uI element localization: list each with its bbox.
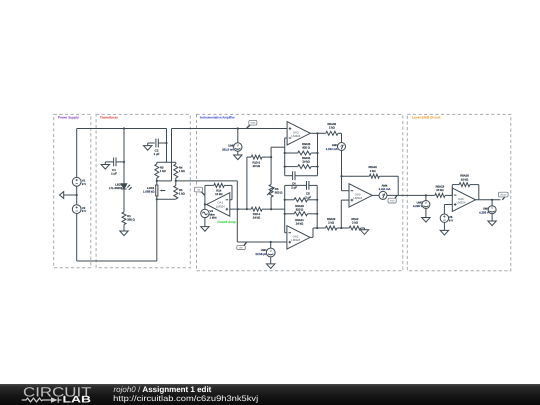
node B divider: [340, 227, 342, 229]
svg-text:Transducer: Transducer: [100, 116, 119, 120]
voltmeter UM5: [222, 129, 242, 152]
wire pot node to OA2 minus leg: [271, 208, 285, 210]
wire mid-left node to riser: [157, 129, 172, 181]
wire vin+ net to instrumentation amp: [172, 128, 288, 130]
resistor R0A23: [326, 217, 350, 230]
wire bridge top rail: [157, 162, 176, 164]
section box Transducer: [96, 114, 190, 267]
resistor R0A25: [284, 142, 319, 155]
svg-text:Vout: Vout: [390, 200, 395, 203]
capacitor C1: [105, 158, 124, 176]
op-amp OA6: [452, 188, 475, 211]
wire LED cathode to R1: [123, 189, 125, 212]
svg-text:LM324: LM324: [216, 204, 225, 208]
wire OA6 non-inverting to V6: [444, 205, 452, 215]
wire LED anode: [123, 129, 125, 184]
node UM5 tap: [237, 127, 239, 129]
resistor R10-1: [251, 207, 271, 219]
capacitor C4: [285, 171, 318, 189]
resistor R10-2: [247, 155, 271, 168]
wire AM4 to level shift: [387, 194, 426, 196]
wire OA3 inverting input: [285, 138, 287, 176]
op-amp OA2: [287, 226, 310, 249]
svg-text:1 μF: 1 μF: [154, 152, 160, 156]
label Guard Amp: [217, 220, 235, 224]
wire OA6 output: [476, 199, 501, 201]
wire node B to OA0 plus: [341, 200, 349, 228]
svg-text:Instrumentation Amplifier: Instrumentation Amplifier: [200, 116, 236, 120]
svg-text:1 kHz: 1 kHz: [210, 216, 218, 220]
svg-text:Guard Amp: Guard Amp: [217, 220, 235, 224]
svg-text:24 kΩ: 24 kΩ: [296, 222, 303, 226]
op-amp OA3: [287, 122, 310, 145]
guard amp op-amp OA1 (mirrored): [207, 193, 230, 217]
svg-text:10 kΩ: 10 kΩ: [436, 188, 443, 192]
svg-text:24 kΩ: 24 kΩ: [253, 216, 260, 220]
svg-text:LM324: LM324: [291, 134, 300, 138]
ammeter AM4: [379, 183, 391, 199]
svg-text:20 kΩ: 20 kΩ: [253, 164, 260, 168]
node UM8 tap: [491, 199, 493, 201]
flag node Vin-: [237, 242, 247, 250]
svg-text:9 V: 9 V: [82, 182, 86, 186]
svg-text:330 Ω: 330 Ω: [127, 218, 135, 222]
svg-text:Power Supply: Power Supply: [58, 116, 79, 120]
voltage source V1: [72, 177, 86, 186]
resistor R0A26: [284, 198, 319, 212]
node feedback tap: [340, 175, 342, 177]
ammeter AM1: [326, 133, 346, 151]
wire OA2 inverting leg: [285, 185, 287, 232]
resistor R0A31: [284, 156, 319, 169]
svg-text:vadd: vadd: [250, 122, 256, 125]
flag node vadd: [246, 120, 257, 128]
svg-text:http://circuitlab.com/c6zu9h3n: http://circuitlab.com/c6zu9h3nk5kvj: [113, 394, 258, 403]
ground below UM5: [234, 151, 242, 159]
node C2 to bridge supply wire: [165, 142, 167, 144]
svg-text:LTL-30233: LTL-30233: [109, 186, 123, 190]
resistor R4: [174, 164, 185, 178]
section box Level Shift Circuit: [407, 114, 511, 270]
wire OA3 output: [310, 132, 326, 176]
capacitor C5: [285, 181, 318, 199]
ground for C1: [101, 162, 109, 169]
flag node vss: [194, 187, 204, 195]
voltage source V6: [440, 214, 453, 222]
svg-text:Level Shift Circuit: Level Shift Circuit: [412, 116, 441, 120]
ground after R0A2: [360, 228, 368, 234]
logo LAB: [63, 394, 92, 405]
ground for C2: [144, 143, 152, 150]
resistor R0A4 feedback: [342, 165, 399, 178]
svg-text:22.58 μV: 22.58 μV: [255, 252, 266, 256]
node LED tap on V+ rail: [123, 127, 125, 129]
svg-text:2.411 mA: 2.411 mA: [379, 187, 391, 191]
svg-text:4.299 V: 4.299 V: [479, 210, 489, 214]
svg-text:4.299 V: 4.299 V: [413, 204, 423, 208]
resistor R5 bridge: [174, 178, 185, 199]
wire R10-2 left leg down to guard wire: [246, 157, 248, 209]
resistor R14 feedback: [205, 183, 232, 199]
flag node Vout: [388, 195, 397, 203]
wire OA3 minus to gain network: [271, 147, 285, 157]
voltmeter UM3: [413, 195, 430, 208]
resistor R0A02: [326, 122, 342, 136]
node pot bottom: [270, 208, 272, 210]
wire AM1 to OA0 inverting node: [342, 151, 350, 191]
wire OA2 output jog: [310, 227, 325, 238]
svg-text:2 kΩ: 2 kΩ: [370, 169, 376, 173]
potentiometer R5 gain: [267, 157, 282, 209]
logo CIRCUIT: [23, 384, 92, 399]
node C1 to LED wire: [123, 161, 125, 163]
wire V- rail from supply to bridge bottom: [77, 199, 157, 261]
section box Instrumentation Amplifier: [197, 114, 403, 270]
resistor R0A23 input: [426, 185, 452, 198]
footer title text: [114, 385, 212, 394]
node UM3 tap: [425, 194, 427, 196]
footer url text: [113, 394, 258, 403]
ground below UM1: [267, 257, 275, 269]
wire OA1 output node: [204, 185, 207, 209]
voltmeter UM1: [255, 242, 275, 257]
ground below V4: [201, 218, 209, 232]
capacitor C2: [148, 139, 167, 157]
ground below UM8: [488, 214, 496, 226]
svg-text:LM324: LM324: [457, 201, 466, 205]
svg-text:12 kΩ: 12 kΩ: [215, 192, 222, 196]
node bridge mid-right: [175, 180, 177, 182]
flag node Vfinale: [498, 192, 508, 200]
voltmeter UM8: [479, 200, 496, 215]
svg-text:1 kΩ: 1 kΩ: [160, 169, 166, 173]
ground below V6: [440, 222, 448, 235]
svg-text:9 V: 9 V: [82, 209, 86, 213]
ground below UM3: [422, 209, 430, 223]
section box Power Supply: [54, 114, 91, 267]
resistor R1: [122, 212, 135, 225]
svg-text:rojoh0 / Assignment 1 edit: rojoh0 / Assignment 1 edit: [114, 385, 212, 394]
svg-text:291.9 mV: 291.9 mV: [222, 147, 234, 151]
wire OA2 non-inverting input: [237, 241, 287, 243]
svg-text:2 kΩ: 2 kΩ: [352, 221, 358, 225]
svg-text:820 Ω: 820 Ω: [302, 146, 310, 150]
svg-text:1.068 kΩ: 1.068 kΩ: [143, 189, 154, 193]
LED LED1: [109, 183, 132, 191]
svg-text:2 kΩ: 2 kΩ: [329, 125, 335, 129]
svg-text:1 kΩ: 1 kΩ: [179, 169, 185, 173]
wire guard bus: [230, 208, 251, 210]
node UM1 tap: [270, 241, 272, 243]
logo resistor zigzag and diode: [22, 397, 62, 403]
wire bridge supply drop: [166, 129, 168, 163]
svg-text:2 μF: 2 μF: [291, 185, 297, 189]
wire bridge bottom rail: [156, 198, 176, 200]
resistor R0A21: [284, 212, 319, 226]
ground below R1: [120, 225, 128, 236]
wire feedback down to output: [397, 176, 399, 195]
resistor R3: [155, 164, 166, 178]
svg-text:2 μF: 2 μF: [305, 195, 311, 199]
wire lower feedback right leg: [316, 185, 318, 228]
wire OA0 output to AM4: [372, 194, 379, 196]
svg-text:LAB: LAB: [63, 394, 92, 405]
svg-text:Vfinale: Vfinale: [500, 193, 507, 196]
node supply mid junction: [76, 194, 78, 196]
svg-text:1 kΩ: 1 kΩ: [179, 192, 185, 196]
wire between V1 and V2: [76, 186, 78, 205]
svg-text:10 kΩ: 10 kΩ: [461, 177, 468, 181]
svg-text:Vin-: Vin-: [239, 246, 243, 249]
photoresistor LDR1: [143, 185, 165, 199]
svg-text:500 Ω: 500 Ω: [275, 190, 283, 194]
node R10-2 right: [270, 156, 272, 158]
svg-text:LM324: LM324: [291, 238, 300, 242]
svg-text:LM324: LM324: [353, 196, 362, 200]
svg-text:2 kΩ: 2 kΩ: [328, 221, 334, 225]
voltage source V2: [72, 205, 86, 214]
resistor R0A2: [349, 217, 364, 230]
wire vin- net to instrumentation amp: [176, 181, 238, 242]
wire R3 to LDR / mid-left node: [156, 178, 158, 185]
svg-text:1.312 mA: 1.312 mA: [326, 147, 338, 151]
svg-text:820 Ω: 820 Ω: [296, 208, 304, 212]
ground power supply (left-pointing): [60, 192, 77, 199]
svg-text:24 kΩ: 24 kΩ: [302, 160, 309, 164]
op-amp OA0 difference: [349, 184, 372, 207]
svg-text:1 μF: 1 μF: [111, 172, 117, 176]
svg-text:6 V: 6 V: [449, 218, 453, 222]
voltage source V4 sine: [201, 209, 218, 220]
resistor R0A26 feedback: [452, 174, 479, 200]
wire V+ rail from supply to transducer: [77, 129, 167, 178]
